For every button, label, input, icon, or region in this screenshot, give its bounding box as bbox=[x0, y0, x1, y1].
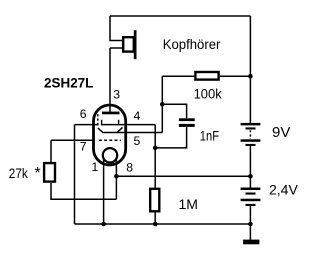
battery B1 9V dotted middle bbox=[249, 130, 251, 139]
svg-text:*: * bbox=[35, 165, 41, 182]
battery B2 2.4V plate long bottom bbox=[241, 199, 261, 202]
node junction bus/battery bottom bbox=[248, 222, 253, 227]
tube U1 grid g3 dashed lead (pin 6) bbox=[97, 114, 99, 124]
wire grid bias drop (pin 7 to 27k) bbox=[50, 140, 52, 162]
headphone LS1 bar bbox=[134, 30, 137, 59]
wire bottom bus bbox=[75, 223, 251, 225]
wire 2.4V to ground bbox=[249, 206, 251, 242]
wire top bus bbox=[110, 15, 250, 17]
svg-text:2,4V: 2,4V bbox=[269, 182, 298, 198]
node junction pin8 bbox=[114, 174, 119, 179]
tube U1 screen row line (pin 4) bbox=[101, 124, 155, 126]
tube U1 control grid g1 dotted (pin 7) bbox=[99, 139, 121, 141]
ground bar bbox=[243, 240, 259, 245]
node junction 100k/right bus bbox=[248, 74, 253, 79]
battery B2 2.4V plate short bottom bbox=[246, 204, 256, 206]
wire 100k left bbox=[162, 75, 194, 77]
battery B1 9V plate long bottom bbox=[241, 139, 261, 142]
tube U1 heater filament bbox=[103, 148, 117, 162]
svg-text:3: 3 bbox=[113, 88, 120, 102]
svg-text:8: 8 bbox=[126, 160, 133, 174]
svg-text:1: 1 bbox=[92, 160, 99, 174]
svg-text:1M: 1M bbox=[179, 196, 198, 212]
battery B2 2.4V plate long top bbox=[241, 188, 261, 191]
tube U1 grid g2 cup line (pin 5) bbox=[98, 127, 163, 132]
wire pin4 down to 1M bbox=[154, 125, 156, 188]
wire right bus upper (to 9V +) bbox=[249, 16, 251, 123]
resistor R3 1M body bbox=[150, 189, 159, 212]
svg-text:9V: 9V bbox=[272, 124, 290, 141]
wire heater pin8 to battery mid bbox=[116, 175, 250, 177]
wire 1M bottom to bus bbox=[154, 213, 156, 225]
wire screen node vertical bbox=[161, 76, 163, 132]
svg-text:2SH27L: 2SH27L bbox=[44, 75, 94, 91]
capacitor C1 top plate bbox=[179, 118, 195, 121]
wire 9V to mid node bbox=[249, 146, 251, 188]
resistor R2 100k body bbox=[195, 72, 218, 80]
capacitor C1 bottom plate bbox=[179, 124, 195, 127]
wire cap bottom to 1M top bbox=[155, 127, 186, 148]
svg-text:27k: 27k bbox=[9, 165, 29, 181]
battery B1 9V plate short bbox=[246, 127, 256, 129]
resistor R1 27k body bbox=[44, 163, 55, 182]
node junction cap top bbox=[160, 102, 165, 107]
svg-text:4: 4 bbox=[134, 109, 141, 123]
tube U1 envelope bbox=[94, 105, 126, 165]
wire 100k right bbox=[220, 75, 251, 77]
node junction 1M/bus bbox=[153, 222, 158, 227]
svg-text:5: 5 bbox=[134, 134, 141, 148]
wire speaker left drop bbox=[110, 16, 122, 113]
tube U1 screen tick left bbox=[101, 120, 103, 125]
tube U1 anode plate bbox=[102, 112, 120, 115]
battery B1 9V plate short bottom bbox=[246, 144, 256, 146]
node junction pin1/bus bbox=[101, 222, 106, 227]
tube U1 screen tick middle bbox=[118, 120, 120, 125]
svg-text:6: 6 bbox=[80, 107, 87, 121]
wire pin 7 lead bbox=[51, 139, 94, 141]
node junction batteries mid bbox=[248, 174, 253, 179]
svg-text:1nF: 1nF bbox=[200, 129, 219, 144]
battery B1 9V plate long top bbox=[241, 123, 261, 126]
svg-text:7: 7 bbox=[80, 139, 87, 153]
wire 27k bottom to pin8 node bbox=[51, 183, 116, 199]
svg-text:Kopfhörer: Kopfhörer bbox=[163, 36, 221, 52]
tube U1 heater leg pin 1 bbox=[103, 158, 105, 224]
svg-text:100k: 100k bbox=[194, 85, 223, 101]
battery B2 2.4V plate short bbox=[246, 193, 256, 195]
wire cap top branch bbox=[162, 104, 186, 118]
wire pin 6 down bbox=[74, 125, 76, 224]
wire pin 6 lead bbox=[75, 124, 99, 126]
node junction cap/1M bbox=[153, 146, 158, 151]
tube U1 heater leg pin 8 bbox=[115, 158, 117, 199]
headphone LS1 Kopfhörer body bbox=[123, 37, 134, 51]
